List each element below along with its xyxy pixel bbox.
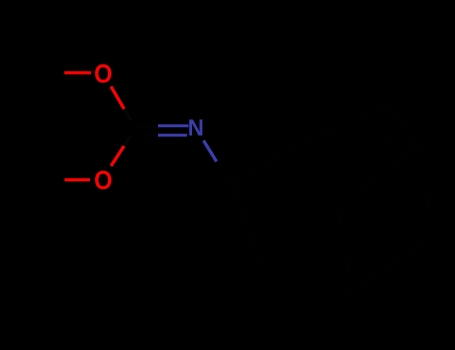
cage inner Y bond 3: [338, 207, 352, 291]
svg-text:O: O: [94, 167, 112, 195]
atom O2 (bottom oxygen): [94, 167, 112, 195]
svg-text:O: O: [94, 60, 112, 88]
bond O1-CH3 (red, horizontal, top): [64, 71, 91, 74]
svg-text:N: N: [188, 114, 204, 141]
cage inner Y bond 2: [338, 146, 420, 207]
atom N: [188, 114, 204, 141]
bond C=N double, upper blue line: [158, 124, 189, 127]
wire: invisible adamantyl cage skeleton (pure-black bonds in source): [218, 107, 434, 291]
wire C=N black half lower: [141, 135, 158, 136]
cage back bridge: [322, 107, 420, 146]
bond O2-C (red diagonal, bottom): [111, 146, 124, 166]
cage outline: [232, 131, 433, 291]
wire C-O bottom black half: [124, 135, 131, 146]
wire C=N black half upper: [136, 126, 159, 127]
bond C=N double, lower blue line: [158, 134, 187, 137]
wire N-C1 black half: [218, 163, 233, 183]
bond N-C1 (blue diagonal): [204, 141, 217, 162]
wire C-O top black half: [124, 109, 131, 121]
bond O1-C (red diagonal, top): [111, 87, 124, 109]
cage inner Y bond 1: [232, 183, 338, 207]
wire: near-invisible carbon bond halves at the imidate core: [124, 109, 131, 146]
atom O1 (top oxygen): [94, 60, 112, 88]
bond O2-CH3 (red, horizontal, bottom): [65, 178, 91, 181]
